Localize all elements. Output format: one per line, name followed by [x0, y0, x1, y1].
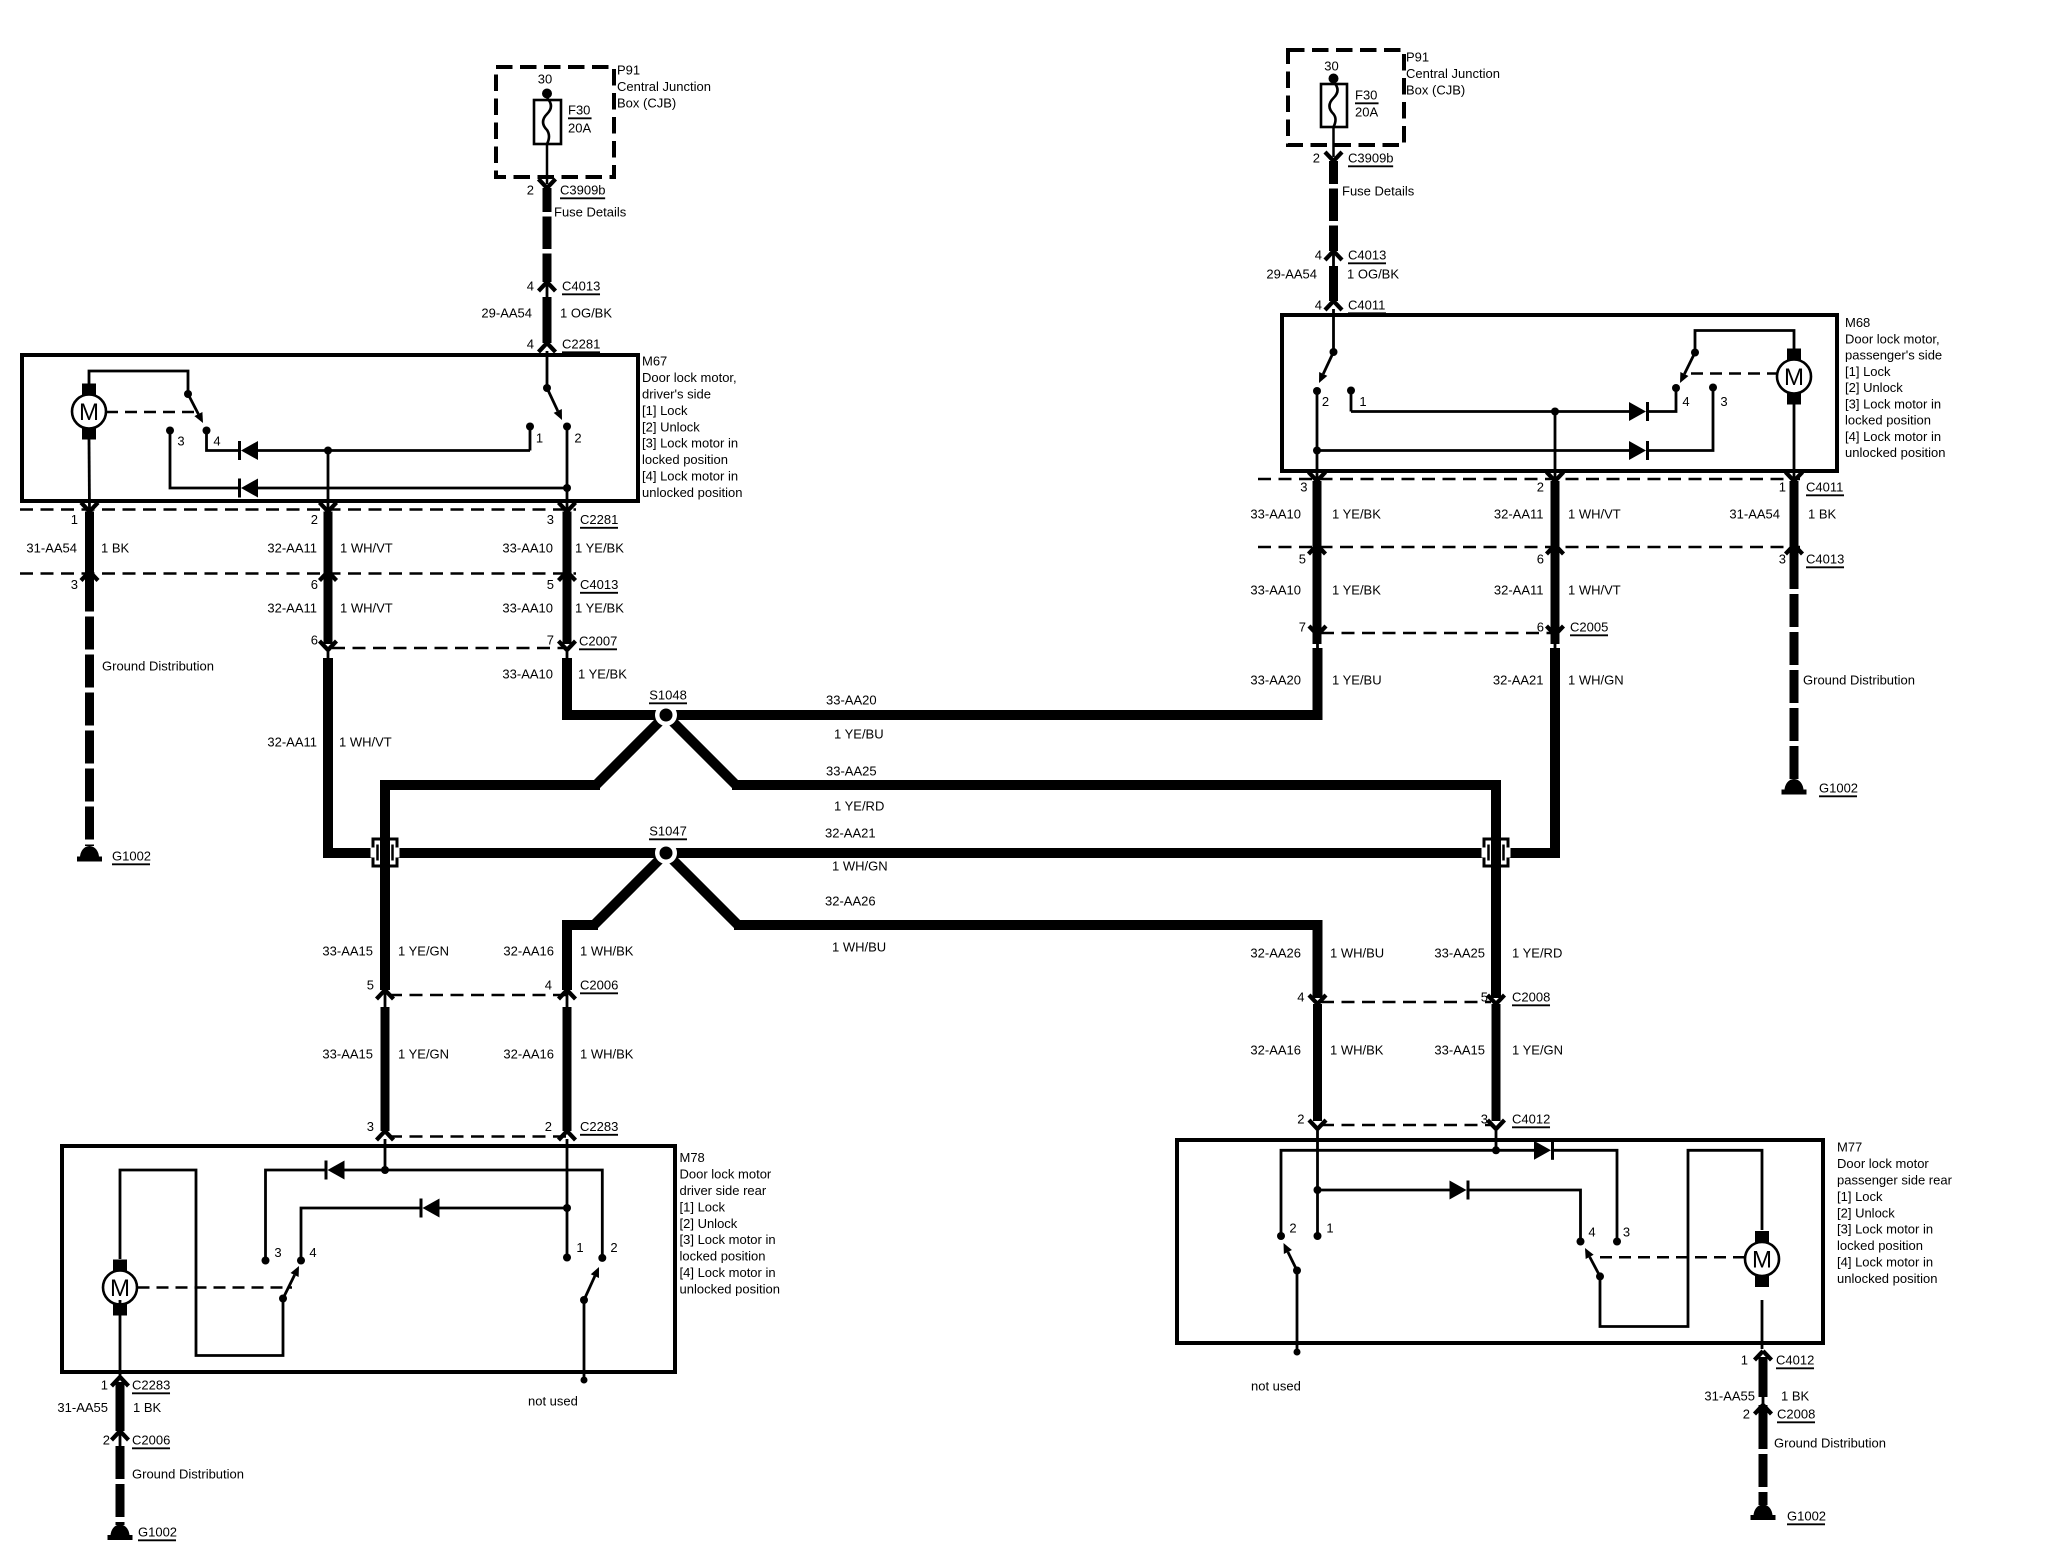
svg-text:1 YE/RD: 1 YE/RD	[834, 799, 884, 814]
svg-text:3: 3	[71, 577, 78, 592]
switch pivot (M78 left switch)	[279, 1295, 287, 1303]
connector C4012 pin 2	[1297, 1112, 1326, 1129]
svg-text:1 WH/BK: 1 WH/BK	[580, 1047, 634, 1062]
svg-text:1 OG/BK: 1 OG/BK	[1347, 267, 1399, 282]
svg-text:5: 5	[1299, 552, 1306, 567]
svg-text:7: 7	[547, 633, 554, 648]
splice S1047	[655, 842, 677, 864]
svg-text:G1002: G1002	[112, 849, 151, 864]
svg-text:32-AA11: 32-AA11	[267, 541, 317, 556]
svg-text:Ground Distribution: Ground Distribution	[1774, 1436, 1886, 1451]
svg-text:1 YE/BK: 1 YE/BK	[1332, 583, 1381, 598]
svg-text:C2008: C2008	[1777, 1407, 1815, 1422]
svg-text:1 WH/BK: 1 WH/BK	[1330, 1043, 1384, 1058]
mechanical link dashed (M67)	[106, 411, 200, 414]
wire ground distribution dashed (left mid)	[85, 579, 94, 847]
motor M (M67)	[72, 384, 106, 440]
connector C2007 pin 6	[311, 633, 337, 658]
svg-text:33-AA10: 33-AA10	[1250, 507, 1301, 522]
svg-text:33-AA10: 33-AA10	[502, 541, 553, 556]
svg-text:M78: M78	[680, 1150, 705, 1165]
contact 3 dot (M67)	[166, 427, 174, 435]
wire motor to switch pivot (M78)	[120, 1170, 283, 1356]
junction dot pin2 second line (M78)	[563, 1204, 571, 1212]
connector C2008 pin 2 (below M77)	[1743, 1397, 1816, 1422]
wire label 33-AA10 1 YE/BK row1	[502, 541, 624, 556]
svg-text:[2] Unlock: [2] Unlock	[1845, 380, 1903, 395]
connector C4013 right label	[1806, 552, 1844, 568]
svg-text:1 YE/BK: 1 YE/BK	[575, 541, 624, 556]
wire ground distribution dashed (right mid)	[1790, 556, 1799, 779]
svg-text:33-AA15: 33-AA15	[322, 944, 373, 959]
wire pin2 into box (M67)	[327, 451, 330, 512]
svg-text:1: 1	[1359, 394, 1366, 409]
connector C2005 row label	[1570, 620, 1608, 636]
connector C2005 pin 6	[1537, 620, 1564, 648]
wire pin2 into box (M68)	[1554, 412, 1557, 482]
svg-text:32-AA16: 32-AA16	[503, 944, 554, 959]
wire left pivot not used (M77)	[1296, 1271, 1299, 1350]
svg-text:30: 30	[1324, 59, 1338, 74]
wire label 1 WH/BU (bus)	[832, 940, 886, 955]
wire upper diode line (M67)	[257, 449, 530, 452]
wire contact2 to pin3 (M68)	[1316, 391, 1319, 481]
connector C2005 pin 7	[1299, 620, 1326, 648]
node 30 terminal dot (right fuse)	[1329, 74, 1339, 84]
svg-text:M: M	[79, 399, 99, 426]
contact 3 label (M67)	[177, 434, 184, 449]
svg-text:31-AA55: 31-AA55	[57, 1400, 108, 1415]
wire 31-AA55 1 BK (M77)	[1759, 1357, 1768, 1397]
svg-text:33-AA10: 33-AA10	[502, 667, 553, 682]
svg-text:Box (CJB): Box (CJB)	[617, 96, 676, 111]
svg-text:C2281: C2281	[580, 512, 618, 527]
motor M (M68)	[1777, 349, 1811, 405]
switch arm (M67 right switch)	[547, 388, 562, 420]
fuse F30 20A (right)	[1321, 82, 1347, 127]
svg-text:C2005: C2005	[1570, 620, 1608, 635]
connector row C2005 dashed line	[1321, 632, 1562, 635]
junction dot pin3 line (M67)	[563, 484, 571, 492]
svg-text:1 YE/RD: 1 YE/RD	[1512, 946, 1562, 961]
switch pivot (M77 left switch)	[1293, 1267, 1301, 1275]
wire label 33-AA25 (bus)	[826, 764, 877, 779]
svg-text:3: 3	[1300, 480, 1307, 495]
contact 4 label (M77)	[1588, 1225, 1595, 1240]
connector C3909b (left)	[527, 179, 606, 198]
svg-text:2: 2	[574, 431, 581, 446]
svg-text:7: 7	[1299, 620, 1306, 635]
svg-text:G1002: G1002	[138, 1525, 177, 1540]
wire label 33-AA25 1 YE/RD row1	[1434, 946, 1562, 961]
svg-text:[4] Lock motor in: [4] Lock motor in	[1845, 429, 1941, 444]
svg-text:not used: not used	[1251, 1379, 1301, 1394]
connector C4012 pin 3	[1481, 1112, 1505, 1129]
wire label 33-AA10 1 YE/BK row2	[502, 601, 624, 616]
connector C4011 label	[1806, 480, 1844, 496]
connector C2006 pin 2 (below M78)	[103, 1431, 171, 1448]
svg-text:4: 4	[545, 978, 552, 993]
wire fuse details (left thick dashed)	[543, 188, 552, 282]
svg-text:1 YE/BU: 1 YE/BU	[834, 727, 884, 742]
wire second line left (M77)	[1318, 1189, 1450, 1192]
svg-text:G1002: G1002	[1819, 781, 1858, 796]
wire motor to switch pivot (M68)	[1695, 331, 1794, 353]
contact 4 dot (M77)	[1577, 1238, 1585, 1246]
switch pivot (M68 right switch)	[1691, 349, 1699, 357]
svg-text:Ground Distribution: Ground Distribution	[102, 659, 214, 674]
connector C4012 pin 1 (below M77)	[1741, 1351, 1815, 1368]
P91 CJB label (left)	[617, 63, 711, 111]
svg-text:passenger's side: passenger's side	[1845, 348, 1942, 363]
contact 4 label (M68)	[1682, 394, 1689, 409]
M78 label text	[680, 1150, 780, 1296]
svg-text:[3] Lock motor in: [3] Lock motor in	[1837, 1222, 1933, 1237]
svg-text:C2283: C2283	[132, 1378, 170, 1393]
contact 2 dot (M68)	[1313, 387, 1321, 395]
svg-text:1 WH/GN: 1 WH/GN	[832, 859, 888, 874]
switch arm (M77 right switch)	[1585, 1248, 1600, 1276]
svg-text:Ground Distribution: Ground Distribution	[132, 1467, 244, 1482]
svg-text:Central Junction: Central Junction	[617, 79, 711, 94]
connector C4011 pin 2	[1537, 472, 1564, 495]
svg-text:2: 2	[545, 1119, 552, 1134]
motor M (M77)	[1745, 1231, 1779, 1287]
contact 2 label (M68)	[1322, 394, 1329, 409]
junction dot pin2 (M67)	[324, 447, 332, 455]
wire to contact1 (M67)	[529, 427, 532, 451]
svg-text:3: 3	[1720, 394, 1727, 409]
pin 30 label (left fuse)	[538, 72, 552, 87]
svg-text:1 WH/BU: 1 WH/BU	[1330, 946, 1384, 961]
svg-text:3: 3	[367, 1119, 374, 1134]
wire motor bottom to pin1 (M78)	[119, 1300, 122, 1377]
ground distribution label (right bottom)	[1774, 1436, 1886, 1451]
svg-text:2: 2	[1297, 1112, 1304, 1127]
svg-text:[1] Lock: [1] Lock	[1845, 364, 1891, 379]
svg-text:F30: F30	[568, 103, 590, 118]
svg-text:locked position: locked position	[642, 452, 728, 467]
wire 32-AA11 to splice S1047	[328, 658, 666, 853]
wire label 32-AA11 1 WH/VT right row1	[1494, 507, 1621, 522]
junction dot pin2 (M68)	[1551, 408, 1559, 416]
wire label 32-AA21 (bus)	[825, 826, 876, 841]
wire label 33-AA10 1 YE/BK right row1	[1250, 507, 1381, 522]
connector C2006 pin 5	[367, 978, 394, 1007]
wire right pivot not used (M78)	[583, 1300, 586, 1377]
connector C2283 pin 1 (below M78)	[101, 1377, 171, 1393]
M67 label text	[642, 354, 742, 500]
contact 4 label (M78)	[309, 1245, 316, 1260]
wire bus 33-AA20 1 YE/BU	[666, 648, 1318, 715]
svg-text:31-AA54: 31-AA54	[1729, 507, 1780, 522]
svg-text:M77: M77	[1837, 1140, 1862, 1155]
svg-text:33-AA25: 33-AA25	[1434, 946, 1485, 961]
connector C4013 (right fuse chain)	[1315, 248, 1387, 266]
connector C2283 row label	[580, 1119, 618, 1135]
connector C4013 pin 6 (right)	[1537, 545, 1564, 567]
not used label (M77)	[1251, 1379, 1301, 1394]
wire C2283 pin2 into M78	[566, 1139, 569, 1208]
wire fuse details (right thick dashed)	[1329, 161, 1338, 251]
wire label 33-AA15 1 YE/GN row2	[322, 1047, 449, 1062]
svg-text:33-AA25: 33-AA25	[826, 764, 877, 779]
svg-text:5: 5	[367, 978, 374, 993]
junction dot pin3 top line (M77)	[1492, 1146, 1500, 1154]
wire label 32-AA11 1 WH/VT mid	[267, 735, 391, 750]
diode lower (M78)	[421, 1199, 440, 1218]
svg-text:C2283: C2283	[580, 1119, 618, 1134]
svg-text:driver side rear: driver side rear	[680, 1183, 767, 1198]
connector C4011 pin 4 (right fuse chain)	[1315, 298, 1386, 314]
wire label 32-AA11 1 WH/VT row2	[267, 601, 392, 616]
wire 33-AA15 seg2	[381, 1007, 390, 1131]
svg-text:M: M	[110, 1275, 130, 1302]
svg-text:unlocked position: unlocked position	[642, 485, 742, 500]
svg-text:1 BK: 1 BK	[101, 541, 130, 556]
connector C4013 pin 5 (right)	[1299, 545, 1326, 567]
svg-text:1 WH/GN: 1 WH/GN	[1568, 673, 1624, 688]
svg-text:32-AA11: 32-AA11	[1494, 583, 1544, 598]
wire 32-AA11 seg2	[324, 572, 333, 645]
wire 33-AA10 right seg2	[1313, 545, 1322, 644]
wire 33-AA15 right seg	[1492, 1004, 1501, 1121]
svg-text:32-AA16: 32-AA16	[1250, 1043, 1301, 1058]
not used label (M78)	[528, 1394, 578, 1409]
contact 1 dot (M77)	[1314, 1232, 1322, 1240]
svg-text:Fuse Details: Fuse Details	[554, 205, 627, 220]
top line M77	[1554, 1150, 1617, 1241]
wire pin1 motor ground (M67)	[88, 439, 91, 512]
diode upper (M77)	[1534, 1141, 1553, 1160]
switch arm (M67 left switch)	[188, 394, 203, 423]
door lock motor M68 box	[1282, 315, 1837, 471]
connector row C4013 right dashed line	[1258, 546, 1800, 549]
svg-text:32-AA11: 32-AA11	[1494, 507, 1544, 522]
wire 32-AA11 right seg2	[1551, 545, 1560, 644]
svg-text:4: 4	[527, 337, 534, 352]
svg-text:[3] Lock motor in: [3] Lock motor in	[1845, 396, 1941, 411]
svg-text:Door lock motor,: Door lock motor,	[1845, 331, 1940, 346]
contact 1 dot (M68)	[1347, 387, 1355, 395]
connector row C4013 dashed line	[20, 572, 576, 575]
contact 3 dot (M68)	[1709, 384, 1717, 392]
splice S1048	[655, 704, 677, 726]
svg-text:unlocked position: unlocked position	[1837, 1271, 1937, 1286]
svg-text:4: 4	[1315, 248, 1322, 263]
diode upper (M68)	[1629, 402, 1648, 421]
wire label 32-AA11 1 WH/VT row1	[267, 541, 392, 556]
splice S1047 branch right diagonal	[666, 853, 738, 925]
svg-text:29-AA54: 29-AA54	[1266, 267, 1317, 282]
second line M78	[301, 1208, 420, 1261]
wire label 33-AA20 1 YE/BU right	[1250, 673, 1381, 688]
svg-text:[1] Lock: [1] Lock	[680, 1199, 726, 1214]
svg-text:20A: 20A	[568, 121, 591, 136]
wire 33-AA10 to splice S1048	[567, 658, 666, 715]
wire label 1 YE/BU (bus)	[834, 727, 884, 742]
svg-text:1: 1	[1779, 480, 1786, 495]
contact 3 label (M68)	[1720, 394, 1727, 409]
svg-text:1 WH/BU: 1 WH/BU	[832, 940, 886, 955]
svg-text:33-AA20: 33-AA20	[826, 693, 877, 708]
connector C4013 row label	[580, 577, 618, 593]
contact 2 label (M77)	[1289, 1221, 1296, 1236]
splice S1048 label	[649, 688, 687, 704]
svg-text:Door lock motor: Door lock motor	[1837, 1156, 1929, 1171]
svg-text:3: 3	[274, 1245, 281, 1260]
wire label 1 WH/GN (bus)	[832, 859, 888, 874]
connector C2008 pin 4	[1297, 990, 1326, 1005]
svg-text:2: 2	[103, 1433, 110, 1448]
svg-text:2: 2	[311, 512, 318, 527]
wire 33-AA15 horizontal (left)	[385, 785, 600, 990]
wire label 32-AA26 1 WH/BU row1	[1250, 946, 1384, 961]
wire motor to switch pivot (M67)	[89, 371, 188, 394]
wire 32-AA11 seg1	[324, 512, 333, 572]
not used stub dot (M77)	[1294, 1349, 1301, 1356]
wire 29-AA54 1 OG/BK (right)	[1329, 266, 1338, 301]
contact 1 dot (M67)	[526, 423, 534, 431]
svg-text:C3909b: C3909b	[1348, 151, 1394, 166]
door lock motor M67 box	[22, 355, 638, 501]
svg-text:1 YE/GN: 1 YE/GN	[1512, 1043, 1563, 1058]
wire C4012 pin2 into M77	[1316, 1129, 1319, 1190]
svg-text:2: 2	[1289, 1221, 1296, 1236]
wire label 29-AA54 (left)	[481, 306, 612, 321]
svg-text:1 WH/BK: 1 WH/BK	[580, 944, 634, 959]
connector C2008 pin 5	[1481, 990, 1505, 1005]
connector C4012 row label	[1512, 1112, 1550, 1128]
svg-text:33-AA10: 33-AA10	[502, 601, 553, 616]
wire 33-AA10 seg1	[563, 512, 572, 572]
connector C3909b (right)	[1313, 151, 1394, 167]
connector C4013 pin 3 (right)	[1779, 545, 1803, 567]
wire fuse output (right, thin)	[1332, 127, 1335, 157]
svg-text:32-AA26: 32-AA26	[825, 894, 876, 909]
wire contact4 to upper diode (M68)	[1648, 388, 1676, 412]
svg-text:F30: F30	[1355, 88, 1377, 103]
svg-text:M67: M67	[642, 354, 667, 369]
svg-text:33-AA10: 33-AA10	[1250, 583, 1301, 598]
svg-text:locked position: locked position	[680, 1249, 766, 1264]
svg-text:32-AA21: 32-AA21	[1493, 673, 1544, 688]
svg-text:4: 4	[527, 279, 534, 294]
wire 32-AA16 horizontal (left)	[567, 925, 598, 990]
switch arm (M77 left switch)	[1284, 1243, 1298, 1271]
svg-text:4: 4	[213, 434, 220, 449]
wire motor to switch pivot (M77)	[1600, 1150, 1762, 1326]
svg-text:Door lock motor: Door lock motor	[680, 1167, 772, 1182]
svg-text:unlocked position: unlocked position	[680, 1281, 780, 1296]
contact 1 label (M67)	[536, 431, 543, 446]
splice S1047 label	[649, 824, 687, 840]
connector C2007 row label	[579, 634, 617, 650]
wire label 31-AA54 1 BK	[26, 541, 129, 556]
svg-text:4: 4	[1588, 1225, 1595, 1240]
wire label 33-AA15 1 YE/GN row1	[322, 944, 449, 959]
ground distribution label (left mid)	[102, 659, 214, 674]
motor M (M78)	[103, 1260, 137, 1316]
switch pivot (M78 right switch)	[580, 1296, 588, 1304]
svg-text:[4] Lock motor in: [4] Lock motor in	[642, 469, 738, 484]
wire 33-AA25 through connector	[1491, 839, 1501, 866]
ground G1002 label (left mid)	[112, 849, 151, 865]
svg-text:S1047: S1047	[649, 824, 687, 839]
svg-text:Box (CJB): Box (CJB)	[1406, 83, 1465, 98]
ground G1002 (right bottom)	[1751, 1505, 1776, 1520]
diode lower (M77)	[1450, 1181, 1469, 1200]
connector row C4012 dashed line	[1321, 1124, 1491, 1127]
svg-text:3: 3	[1623, 1225, 1630, 1240]
svg-text:locked position: locked position	[1837, 1238, 1923, 1253]
svg-text:5: 5	[1481, 990, 1488, 1005]
svg-text:[4] Lock motor in: [4] Lock motor in	[680, 1265, 776, 1280]
svg-text:[1] Lock: [1] Lock	[1837, 1189, 1883, 1204]
svg-text:C4013: C4013	[562, 279, 600, 294]
wire top line right (M78)	[345, 1170, 603, 1258]
node 30 terminal dot (left fuse)	[542, 89, 552, 99]
svg-text:C2281: C2281	[562, 337, 600, 352]
wire second line right (M78)	[440, 1207, 568, 1210]
svg-text:32-AA11: 32-AA11	[267, 601, 317, 616]
wire contact2 to pin3 (M67)	[566, 427, 569, 512]
M77 label text	[1837, 1140, 1953, 1286]
svg-text:P91: P91	[1406, 50, 1429, 65]
connector C2006 pin 4	[545, 978, 576, 1007]
svg-text:6: 6	[1537, 620, 1544, 635]
switch arm (M68 left switch)	[1319, 352, 1334, 383]
svg-text:1 YE/BK: 1 YE/BK	[578, 667, 627, 682]
wire contact3 to lower diode (M68)	[1648, 388, 1713, 451]
connector C4013 pin 5	[547, 572, 576, 593]
wire label 33-AA20 (bus)	[826, 693, 877, 708]
connector C2281 pin 2	[311, 503, 337, 528]
door lock motor M78 box	[62, 1146, 675, 1372]
svg-text:C2006: C2006	[580, 978, 618, 993]
ground G1002 (left bottom)	[108, 1525, 133, 1541]
wire C2283 pin3 into M78	[384, 1139, 387, 1170]
pin 30 label (right fuse)	[1324, 59, 1338, 74]
svg-text:30: 30	[538, 72, 552, 87]
wire 32-AA16 right seg	[1313, 1004, 1322, 1121]
wire label 32-AA16 1 WH/BK row2	[503, 1047, 633, 1062]
svg-text:1: 1	[71, 512, 78, 527]
wire lower diode line (M68)	[1317, 449, 1629, 452]
junction dot pin3 top line (M78)	[381, 1166, 389, 1174]
svg-text:M: M	[1752, 1247, 1772, 1274]
svg-text:1 BK: 1 BK	[133, 1400, 162, 1415]
svg-text:20A: 20A	[1355, 105, 1378, 120]
wire ground distribution dashed (left bottom)	[116, 1446, 125, 1525]
ground G1002 label (left bottom)	[138, 1525, 177, 1541]
wire label 31-AA55 1 BK (M77)	[1704, 1389, 1809, 1404]
svg-text:1: 1	[576, 1240, 583, 1255]
connector row C2008 dashed line	[1321, 1001, 1491, 1004]
svg-text:6: 6	[311, 577, 318, 592]
svg-text:[3] Lock motor in: [3] Lock motor in	[642, 436, 738, 451]
svg-text:[4] Lock motor in: [4] Lock motor in	[1837, 1255, 1933, 1270]
central junction box P91 (right) dashed outline	[1288, 50, 1404, 145]
inline connector (right, on 32-AA21)	[1482, 839, 1511, 866]
wire label 33-AA10 1 YE/BK right row2	[1250, 583, 1381, 598]
junction dot pin3 line (M68)	[1313, 447, 1321, 455]
svg-text:C4013: C4013	[1806, 552, 1844, 567]
wire lower diode line (M67)	[257, 487, 567, 490]
fuse details label (left)	[554, 205, 627, 220]
ground G1002 label (right mid)	[1819, 781, 1858, 797]
svg-text:1 YE/GN: 1 YE/GN	[398, 1047, 449, 1062]
